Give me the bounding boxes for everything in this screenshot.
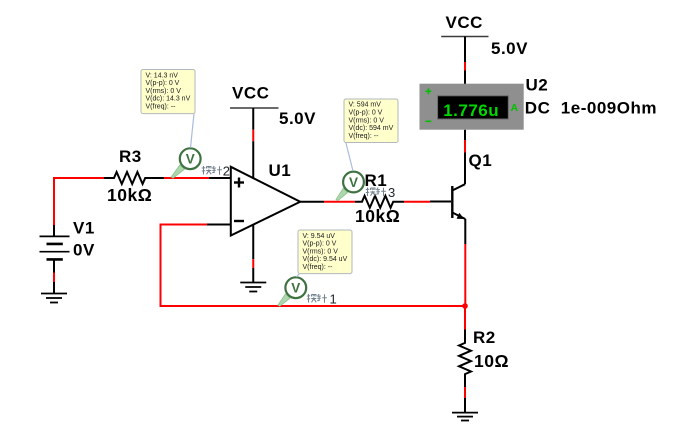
ground pin of V1 bbox=[53, 282, 55, 293]
connector tooltip1 to probe2 bbox=[191, 114, 195, 148]
svg-text:1.776u: 1.776u bbox=[443, 101, 499, 120]
svg-text:V: 594 mV: V: 594 mV bbox=[349, 102, 382, 109]
svg-text:V(dc): 14.3 nV: V(dc): 14.3 nV bbox=[146, 96, 191, 103]
op-amp U1 bbox=[231, 167, 300, 236]
wire V1 plus to R3 (red L) bbox=[54, 178, 104, 226]
probe 2 (on R3-opamp wire) bbox=[171, 148, 200, 178]
VCC rail (top right) bbox=[441, 13, 488, 37]
svg-text:VCC: VCC bbox=[446, 13, 483, 32]
wire Q1 emitter to node (red) bbox=[464, 244, 466, 306]
svg-text:V: 14.3 nV: V: 14.3 nV bbox=[146, 72, 179, 79]
svg-text:R1: R1 bbox=[365, 171, 388, 190]
svg-text:R2: R2 bbox=[473, 328, 496, 347]
svg-text:V(dc): 9.54 uV: V(dc): 9.54 uV bbox=[303, 256, 348, 263]
svg-text:U2: U2 bbox=[526, 76, 549, 95]
svg-text:2: 2 bbox=[223, 164, 230, 179]
svg-text:VCC: VCC bbox=[232, 84, 269, 103]
wire VCC to opamp power (red segment) bbox=[252, 130, 254, 142]
svg-text:V(dc): 594 mV: V(dc): 594 mV bbox=[349, 125, 394, 132]
svg-text:V(rms): 0 V: V(rms): 0 V bbox=[146, 88, 182, 95]
wire VCC2 to meter (red segment) bbox=[464, 62, 466, 71]
svg-text:0V: 0V bbox=[73, 241, 95, 260]
pin stub opamp plus input bbox=[209, 177, 231, 179]
wire opamp power to ground (red segment) bbox=[252, 259, 254, 268]
svg-text:DC 1e-009Ohm: DC 1e-009Ohm bbox=[525, 98, 657, 117]
probe 3 (on output wire) bbox=[336, 172, 364, 201]
svg-text:U1: U1 bbox=[269, 161, 292, 180]
wire node to R2 (red) bbox=[464, 306, 466, 332]
resistor R1 bbox=[355, 196, 404, 208]
svg-text:V(p-p): 0 V: V(p-p): 0 V bbox=[349, 110, 383, 117]
ground (below R2) bbox=[452, 413, 478, 421]
transistor Q1 bbox=[452, 153, 465, 245]
connector tooltip3 to probe1 bbox=[297, 274, 300, 278]
svg-text:V(rms): 0 V: V(rms): 0 V bbox=[349, 117, 385, 124]
ground pin below opamp bbox=[252, 268, 254, 283]
wire feedback minus input to emitter node (red) bbox=[161, 225, 466, 307]
probe 1 (on bottom feedback wire) bbox=[278, 277, 306, 306]
resistor R2 bbox=[459, 330, 471, 388]
svg-text:1: 1 bbox=[330, 292, 337, 307]
ground (below op-amp) bbox=[240, 283, 266, 292]
battery V1 bbox=[40, 225, 70, 273]
ground pin below R2 bbox=[464, 398, 466, 413]
svg-text:V: 9.54 uV: V: 9.54 uV bbox=[303, 233, 336, 240]
pin stub opamp minus input bbox=[207, 224, 231, 226]
svg-text:V(p-p): 0 V: V(p-p): 0 V bbox=[146, 80, 180, 87]
VCC rail (op-amp) bbox=[230, 84, 279, 109]
svg-text:V(p-p): 0 V: V(p-p): 0 V bbox=[303, 241, 337, 248]
svg-text:5.0V: 5.0V bbox=[279, 109, 316, 128]
svg-text:10Ω: 10Ω bbox=[474, 351, 509, 371]
wire V1 minus to ground (red segment) bbox=[53, 273, 55, 283]
svg-text:V: V bbox=[186, 152, 195, 167]
node junction dot bbox=[462, 303, 468, 309]
svg-text:10kΩ: 10kΩ bbox=[355, 206, 400, 226]
pin stub VCC2 bar down bbox=[464, 37, 466, 63]
wire R2 to ground (red segment) bbox=[464, 387, 466, 398]
connector tooltip2 to probe3 bbox=[346, 142, 353, 171]
pin stub VCC bar down bbox=[252, 108, 254, 130]
svg-text:V1: V1 bbox=[73, 219, 95, 238]
pin stub opamp bottom power bbox=[252, 225, 254, 260]
ammeter U2 bbox=[420, 84, 524, 130]
pin stub meter bottom bbox=[464, 130, 466, 140]
ground (below V1) bbox=[41, 294, 67, 303]
svg-text:Q1: Q1 bbox=[469, 151, 493, 170]
tooltip probe2 readings bbox=[141, 70, 195, 114]
wire meter to Q1 collector (red segment) bbox=[464, 140, 466, 153]
label probe2 (tan-zhen-2) bbox=[202, 166, 222, 175]
svg-text:V(freq): --: V(freq): -- bbox=[349, 133, 380, 140]
svg-text:5.0V: 5.0V bbox=[491, 39, 528, 58]
tooltip probe1 readings bbox=[298, 230, 352, 274]
pin stub opamp output bbox=[300, 201, 324, 203]
label probe3 (tan-zhen-3) bbox=[366, 188, 386, 197]
svg-text:10kΩ: 10kΩ bbox=[107, 185, 152, 205]
tooltip probe3 readings bbox=[344, 99, 398, 143]
label probe1 (tan-zhen-1) bbox=[307, 294, 327, 303]
svg-text:R3: R3 bbox=[119, 147, 142, 166]
svg-text:V(freq): --: V(freq): -- bbox=[146, 104, 177, 111]
svg-text:V(rms): 0 V: V(rms): 0 V bbox=[303, 248, 339, 255]
pin stub meter top bbox=[464, 71, 466, 85]
svg-text:A: A bbox=[511, 102, 519, 114]
pin stub Q1 base bbox=[430, 201, 451, 203]
svg-text:V: V bbox=[291, 281, 300, 296]
wire output to R1 (red) bbox=[324, 201, 355, 203]
wire R1 to Q1 base (red) bbox=[404, 201, 430, 203]
svg-text:V(freq): --: V(freq): -- bbox=[303, 264, 334, 271]
wire R3 to opamp plus (red) bbox=[164, 177, 209, 179]
resistor R3 bbox=[104, 172, 164, 184]
pin stub opamp top power bbox=[252, 141, 254, 178]
svg-text:V: V bbox=[349, 175, 358, 190]
svg-text:3: 3 bbox=[388, 185, 395, 200]
